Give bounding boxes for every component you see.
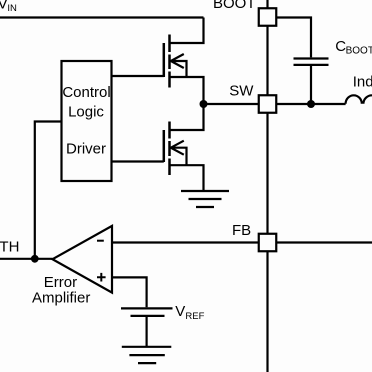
pin SW — [259, 95, 277, 113]
transistor Q2 channel — [168, 122, 171, 176]
node junction dot at TH — [31, 255, 39, 263]
svg-text:Amplifier: Amplifier — [32, 290, 90, 307]
transistor Q2 body diode arrow — [171, 141, 187, 166]
pin BOOT — [259, 8, 277, 26]
svg-text:Logic: Logic — [68, 104, 104, 121]
svg-text:IN: IN — [7, 3, 17, 14]
wire VREF to ground — [146, 317, 148, 346]
pin FB — [259, 234, 277, 252]
transistor Q1 body diode arrow — [171, 54, 187, 77]
wire VIN rail — [0, 16, 204, 18]
wire gate2 — [112, 160, 164, 162]
svg-text:Driver: Driver — [66, 141, 106, 158]
wire error amp plus input to VREF — [112, 277, 146, 307]
wire BOOT/SW/FB pin column — [266, 0, 268, 372]
wire BOOT to CBOOT — [276, 18, 311, 58]
svg-text:REF: REF — [185, 311, 204, 322]
ground for Q2 — [181, 191, 229, 207]
ground for VREF — [122, 347, 172, 363]
transistor Q1 gate bar — [163, 43, 166, 77]
battery VREF — [121, 308, 173, 316]
svg-text:V: V — [175, 303, 185, 320]
transistor Q2 source — [170, 165, 204, 190]
wire control logic to error amp output — [35, 122, 62, 259]
transistor Q2 drain — [170, 104, 204, 130]
inductor L1 — [346, 95, 372, 104]
wire SW line — [204, 103, 346, 105]
svg-text:Error: Error — [44, 274, 77, 291]
capacitor CBOOT — [294, 59, 329, 65]
node junction dot SW — [200, 100, 208, 108]
svg-text:FB: FB — [232, 222, 251, 239]
svg-text:SW: SW — [229, 83, 254, 100]
transistor Q2 gate bar — [163, 130, 166, 162]
transistor Q1 source — [170, 77, 204, 104]
block U2 Control Logic / Driver box — [62, 61, 112, 181]
op-amp U1 error amplifier — [53, 226, 113, 293]
node junction dot CBOOT/SW — [307, 100, 315, 108]
transistor Q1 channel — [168, 35, 171, 88]
op-amp plus sign — [97, 273, 106, 282]
svg-text:BOOT: BOOT — [213, 0, 256, 12]
wire FB line — [112, 241, 372, 243]
wire TH — [0, 258, 53, 260]
op-amp minus sign — [97, 240, 104, 242]
svg-text:Control: Control — [62, 84, 110, 101]
svg-text:TH: TH — [0, 239, 19, 256]
svg-text:Inductor: Inductor — [353, 74, 372, 91]
svg-text:BOOT: BOOT — [346, 46, 372, 57]
transistor Q1 drain — [170, 18, 204, 44]
wire CBOOT to SW — [310, 66, 312, 104]
wire gate1 — [112, 75, 164, 77]
